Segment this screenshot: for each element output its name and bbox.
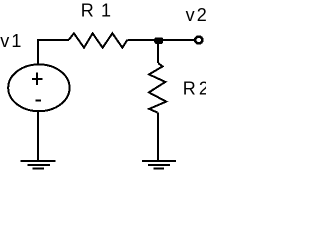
- svg-text:1: 1: [101, 1, 111, 21]
- wire v1 bottom to ground: [37, 111, 39, 160]
- wire R1 to node: [127, 39, 158, 41]
- v1 plus sign: [32, 78, 43, 80]
- wire R2 to ground: [157, 113, 159, 160]
- svg-text:1: 1: [11, 31, 21, 51]
- voltage source v1 ellipse: [8, 64, 69, 111]
- svg-text:R: R: [81, 1, 94, 21]
- svg-text:v: v: [186, 5, 195, 25]
- v1 minus sign: [35, 100, 41, 102]
- junction dot: [154, 37, 163, 44]
- resistor R1: [69, 33, 128, 47]
- wire v1 top vertical: [37, 40, 39, 64]
- svg-text:R: R: [183, 79, 196, 99]
- ground (left): [20, 161, 55, 168]
- resistor R2: [149, 63, 166, 112]
- svg-text:2: 2: [199, 79, 206, 99]
- wire top horizontal to R1: [37, 39, 69, 41]
- ground (right): [142, 161, 176, 168]
- svg-text:v: v: [0, 31, 9, 51]
- wire node down to R2: [157, 40, 159, 63]
- svg-text:2: 2: [197, 5, 206, 25]
- wire node to terminal v2: [158, 39, 194, 41]
- terminal circle node v2: [195, 37, 202, 44]
